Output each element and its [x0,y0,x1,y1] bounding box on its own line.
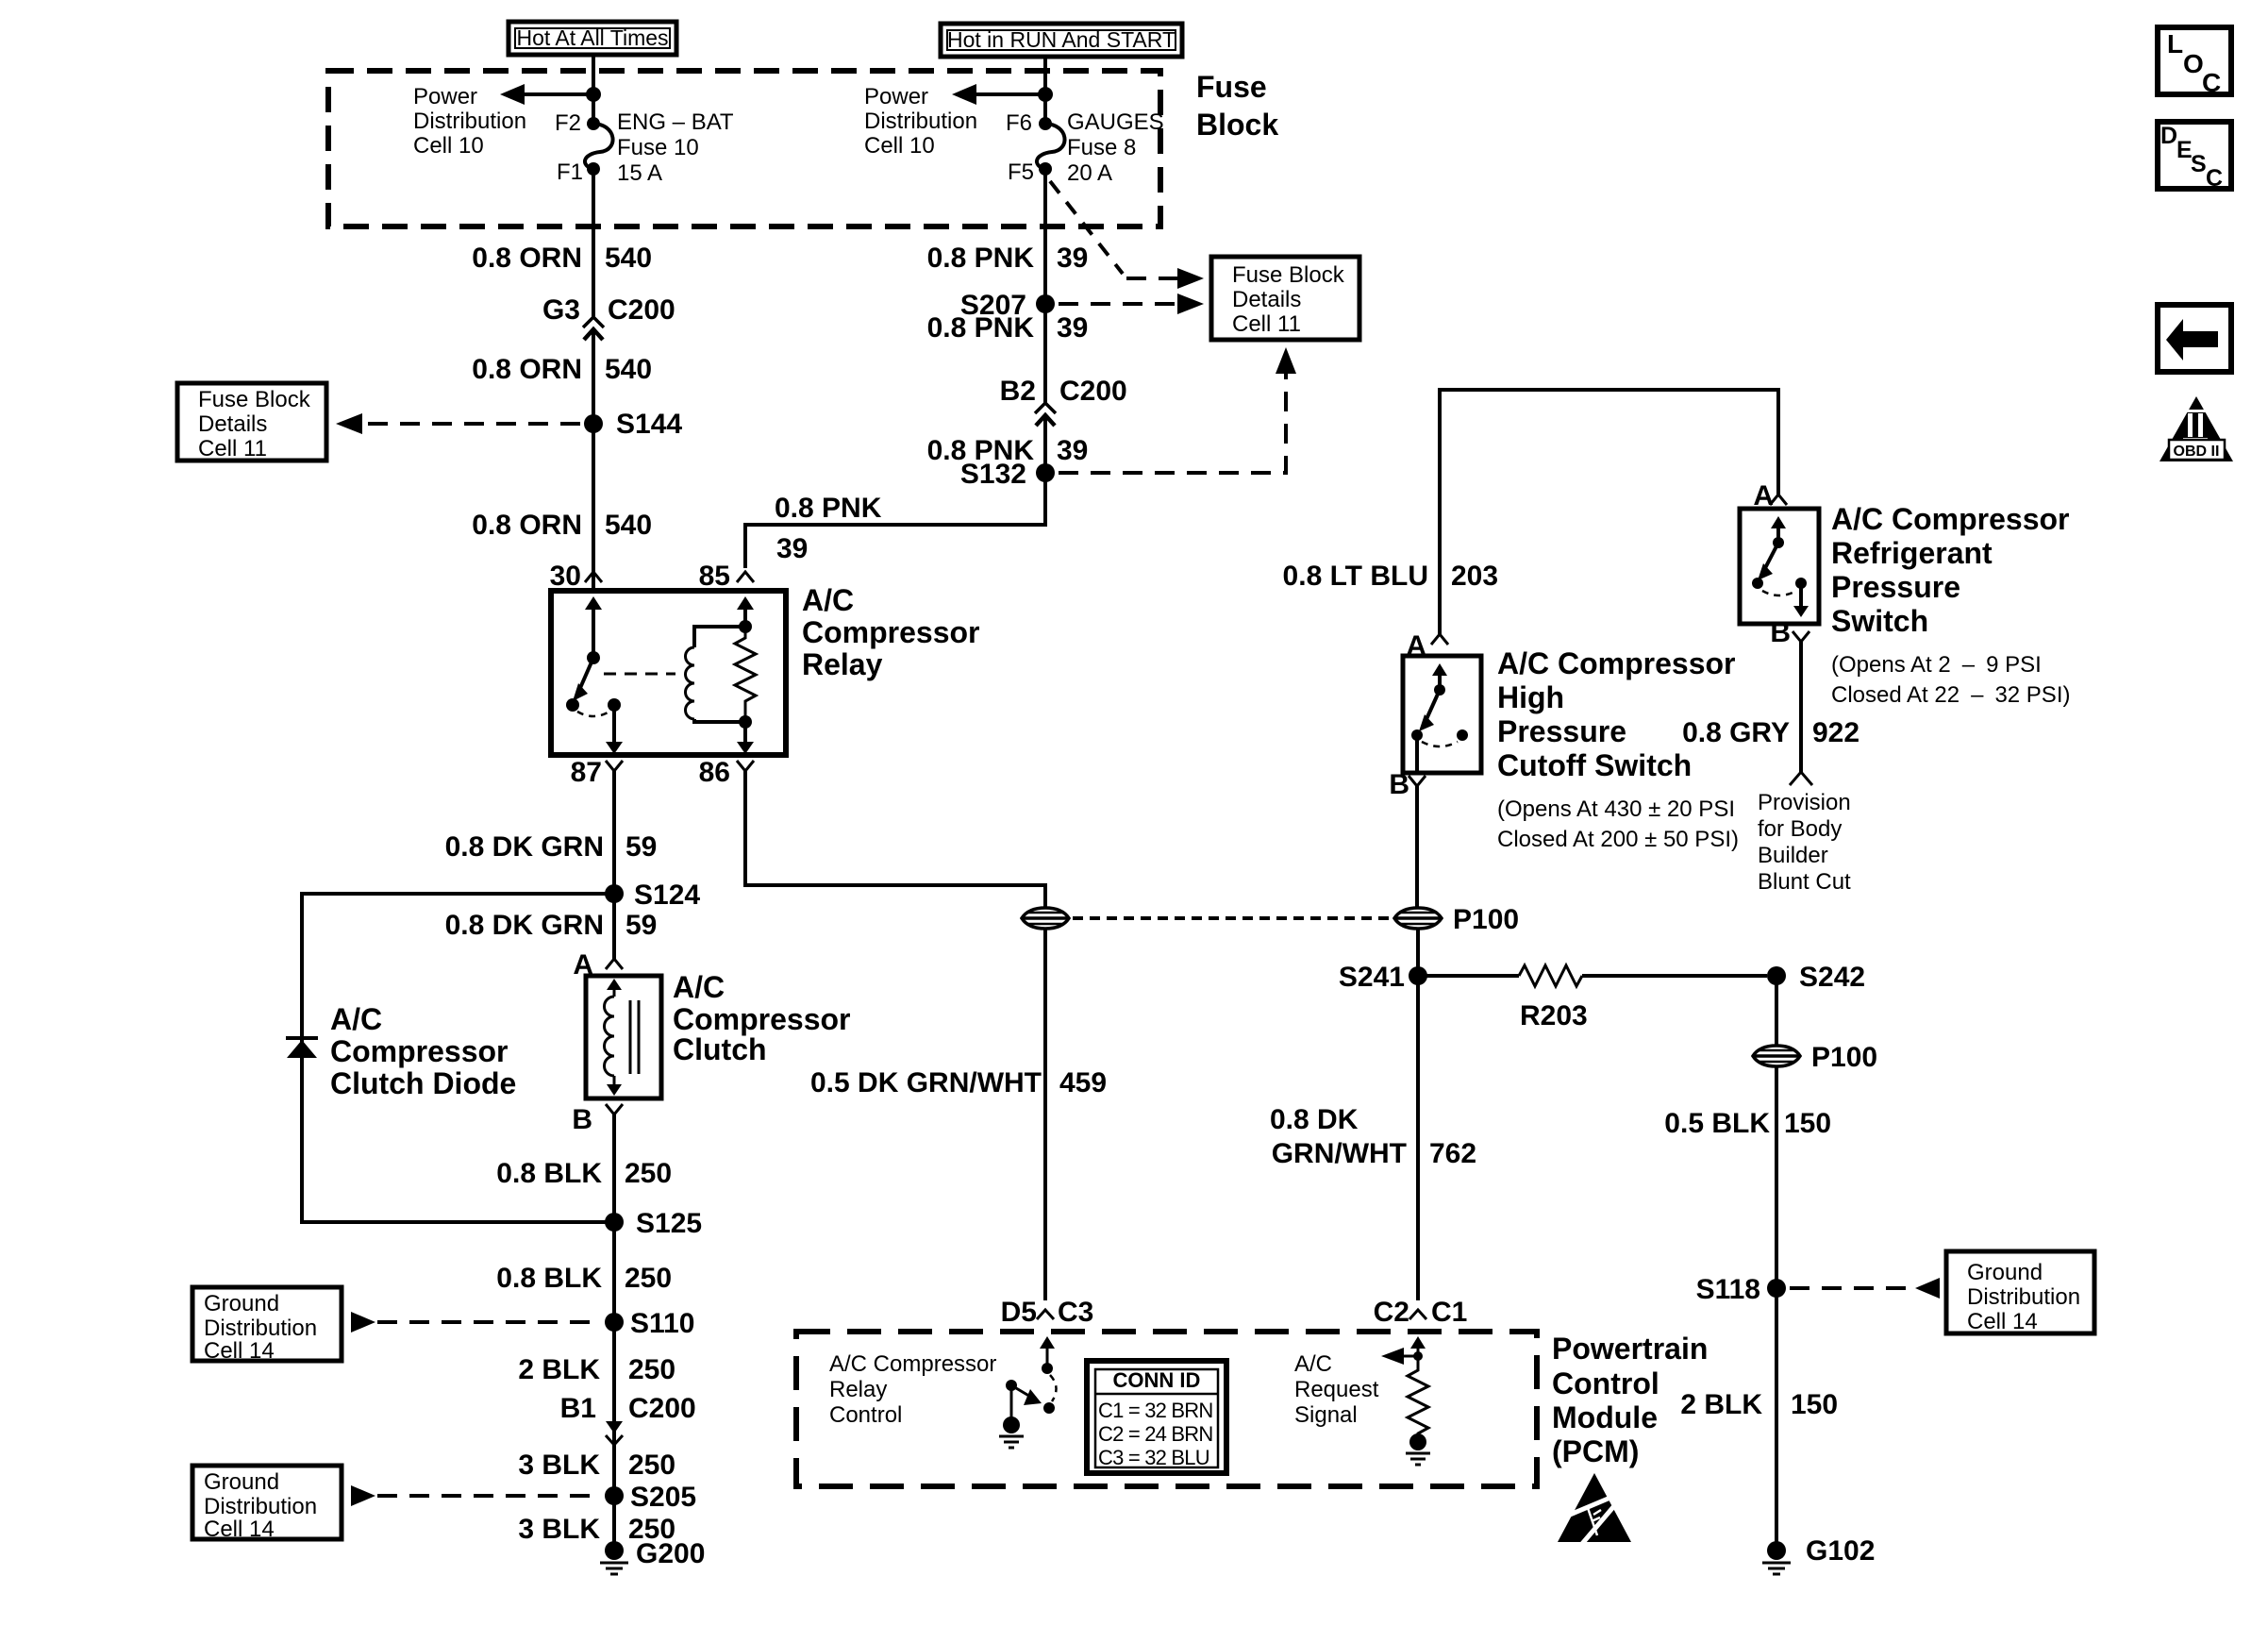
svg-text:C3: C3 [1058,1297,1093,1328]
svg-text:C1: C1 [1431,1297,1467,1328]
label G200 [636,1538,705,1569]
node S144 [584,414,603,433]
svg-text:Cell 14: Cell 14 [204,1338,275,1364]
svg-text:Fuse: Fuse [1196,70,1267,104]
svg-text:A/C: A/C [802,583,854,617]
svg-text:Fuse Block: Fuse Block [198,387,311,412]
label GAUGES Fuse 8 20 A [1067,109,1164,186]
pin labels C2 C1 [1374,1297,1468,1328]
label S207 [960,290,1026,321]
reference box Ground Distribution Cell 14 (lower left) [192,1466,342,1542]
label F6 [1006,110,1032,136]
svg-text:Relay: Relay [829,1377,887,1402]
blunt cut connector end [1790,772,1812,785]
label 0.8 ORN 540 (2) [472,354,652,385]
relay terminal 86 connector [699,757,1045,907]
label 0.8 PNK 39 (wire to relay) [775,493,882,564]
node S124 [605,884,624,903]
clutch plates [630,1000,639,1074]
svg-text:Control: Control [829,1402,902,1428]
svg-text:0.8 DK: 0.8 DK [1270,1104,1359,1135]
svg-text:15 A: 15 A [617,160,662,186]
tag box Hot At All Times [509,22,676,55]
label Powertrain Control Module (PCM) [1552,1332,1708,1468]
label 0.5 BLK 150 [1664,1108,1831,1139]
PCM relay control driver switch [999,1336,1057,1448]
svg-text:3 BLK: 3 BLK [518,1450,600,1481]
node S118 [1767,1279,1786,1298]
label F5 [1008,159,1034,185]
svg-text:Details: Details [198,411,267,437]
wire from Hot in RUN And START into fuse block [1043,57,1047,124]
label A/C Compressor High Pressure Cutoff Switch [1497,646,1739,852]
connector B2 C200 on pink wire [1035,403,1056,525]
wire P100 down to PCM D5/C3 [1043,929,1047,1300]
connector G3 C200 on orange wire [583,317,604,593]
pin labels D5 C3 [1001,1297,1094,1328]
label S242 [1799,962,1865,993]
relay terminal 87 connector [571,757,623,959]
dashed reference from S207 to Fuse Block Details [1059,293,1204,314]
svg-text:S: S [2191,151,2207,177]
svg-text:C2 = 24 BRN: C2 = 24 BRN [1098,1422,1212,1446]
Powertrain Control Module dashed box [796,1332,1537,1486]
svg-text:0.8 BLK: 0.8 BLK [496,1158,602,1189]
diode loop wire [302,894,614,1222]
svg-text:Closed At 22 – 32 PSI): Closed At 22 – 32 PSI) [1831,682,2070,708]
icon OBD II triangle [2160,396,2233,461]
label Power Distribution Cell 10 (right) [864,84,977,159]
node ignition feed right [1038,87,1053,102]
svg-text:Compressor: Compressor [802,615,980,649]
arrow to Power Distribution (left) [500,84,593,105]
wire F1 down to G3 C200 [592,169,595,317]
relay terminal 85 connector [699,561,754,592]
svg-text:3 BLK: 3 BLK [518,1514,600,1545]
label 0.8 ORN 540 (1) [472,243,652,274]
svg-text:F1: F1 [557,159,583,185]
label G3 C200 [542,294,675,326]
node S125 [605,1213,624,1232]
label P100 (left) [1453,904,1519,935]
label 0.8 ORN 540 (3) [472,510,652,541]
label P100 (right) [1811,1042,1877,1073]
svg-text:0.8 ORN: 0.8 ORN [472,510,582,541]
svg-text:Fuse Block: Fuse Block [1232,262,1345,288]
refrigerant switch terminal A connector [1753,480,1787,511]
svg-text:(PCM): (PCM) [1552,1434,1639,1468]
fuse F6/F5 GAUGES [1037,117,1065,176]
svg-text:C3 = 32 BLU: C3 = 32 BLU [1098,1446,1209,1469]
in-line connector P100 on relay control wire [1022,908,1069,929]
svg-text:Hot in RUN And START: Hot in RUN And START [947,27,1176,52]
label S124 [634,880,700,911]
svg-text:Cell 11: Cell 11 [1232,311,1301,337]
cutoff switch contacts [1411,663,1468,771]
label 0.8 LT BLU 203 [1283,561,1499,592]
dashed reference from S118 to Ground Distribution [1790,1278,1940,1299]
clutch coil [605,979,623,1096]
svg-text:F2: F2 [555,110,581,136]
A/C Compressor Relay box [551,591,786,755]
svg-text:0.8 BLK: 0.8 BLK [496,1263,602,1294]
svg-text:Cell 10: Cell 10 [413,133,484,159]
label S205 [630,1482,696,1513]
svg-text:B: B [572,1104,592,1135]
svg-text:A/C: A/C [673,970,725,1004]
svg-text:Relay: Relay [802,647,883,681]
label A/C Compressor Relay [802,583,980,681]
label 0.8 PNK 39 (3) [927,435,1089,466]
svg-text:S241: S241 [1339,962,1405,993]
svg-text:F5: F5 [1008,159,1034,185]
label 0.8 PNK 39 (2) [927,312,1089,344]
svg-text:Signal: Signal [1294,1402,1358,1428]
svg-text:G200: G200 [636,1538,705,1569]
svg-text:30: 30 [550,561,581,592]
dashed reference arrow to S110 [351,1312,601,1333]
svg-text:39: 39 [1057,312,1088,344]
svg-text:Ground: Ground [204,1291,279,1316]
A/C compressor clutch diode [286,1038,318,1058]
A/C Compressor Clutch box [586,976,661,1098]
svg-text:C: C [2202,68,2221,97]
svg-text:Blunt Cut: Blunt Cut [1758,869,1851,895]
svg-text:C200: C200 [628,1393,696,1424]
svg-text:540: 540 [605,510,652,541]
svg-text:GAUGES: GAUGES [1067,109,1164,135]
svg-text:85: 85 [699,561,730,592]
svg-text:0.8 GRY: 0.8 GRY [1682,717,1790,748]
svg-text:Cutoff Switch: Cutoff Switch [1497,748,1692,782]
svg-text:Power: Power [413,84,477,109]
svg-text:0.8 LT BLU: 0.8 LT BLU [1283,561,1428,592]
label S118 [1696,1274,1760,1305]
label 0.8 PNK 39 (1) [927,243,1089,274]
svg-text:250: 250 [628,1354,675,1385]
svg-text:86: 86 [699,757,730,788]
svg-text:O: O [2183,49,2204,78]
icon LOC [2158,27,2231,97]
svg-text:Compressor: Compressor [673,1002,851,1036]
svg-text:922: 922 [1812,717,1859,748]
label S110 [630,1308,694,1339]
cutoff switch terminal B connector [1389,769,1426,907]
svg-text:87: 87 [571,757,602,788]
label 0.8 DK GRN 59 (2) [445,910,658,941]
svg-text:D: D [2160,123,2177,149]
relay terminal 30 connector [550,561,602,592]
wire S132 to relay terminal 85 [745,473,1045,568]
svg-text:Compressor: Compressor [330,1034,509,1068]
svg-text:Cell 14: Cell 14 [204,1517,275,1542]
svg-text:250: 250 [628,1450,675,1481]
svg-text:S124: S124 [634,880,700,911]
A/C Compressor High Pressure Cutoff Switch box [1403,656,1481,773]
wire P100 to S241 [1416,929,1420,1300]
label A/C Compressor Clutch [673,970,851,1066]
svg-text:C1 = 32 BRN: C1 = 32 BRN [1098,1399,1212,1422]
svg-text:Clutch: Clutch [673,1032,767,1066]
svg-text:S125: S125 [636,1208,702,1239]
svg-text:Module: Module [1552,1400,1658,1434]
CONN ID table [1087,1361,1226,1473]
label F2 [555,110,581,136]
svg-text:Distribution: Distribution [413,109,526,134]
svg-text:C: C [2206,165,2223,192]
reference box Ground Distribution Cell 14 (upper left) [192,1287,342,1364]
svg-text:Fuse 10: Fuse 10 [617,135,699,160]
relay internal dashed link [604,673,675,676]
label R203 [1520,1000,1588,1031]
label 0.8 DK GRN 59 (1) [445,831,658,863]
label 3 BLK 250 (2) [518,1514,675,1545]
svg-text:Distribution: Distribution [864,109,977,134]
svg-text:R203: R203 [1520,1000,1588,1031]
svg-text:Closed At 200 ± 50 PSI): Closed At 200 ± 50 PSI) [1497,827,1739,852]
svg-text:Pressure: Pressure [1831,570,1960,604]
label 0.8 BLK 250 (2) [496,1263,672,1294]
svg-text:C2: C2 [1374,1297,1409,1328]
reference box Fuse Block Details Cell 11 (left) [177,383,326,461]
label S132 [960,459,1026,490]
icon back arrow [2158,305,2231,372]
ESD warning symbol [1552,1473,1631,1545]
label B2 C200 [1000,376,1127,407]
label 0.8 BLK 250 (1) [496,1158,672,1189]
dashed reference from S144 to Fuse Block Details [336,413,580,434]
connector B1 C200 [560,1393,696,1445]
svg-text:P100: P100 [1453,904,1519,935]
svg-text:S144: S144 [616,409,682,440]
svg-text:G102: G102 [1806,1535,1875,1567]
svg-text:S242: S242 [1799,962,1865,993]
svg-text:B: B [1389,769,1409,800]
PCM A/C request input [1381,1336,1430,1465]
label 0.8 GRY 922 [1682,717,1859,748]
label Power Distribution Cell 10 (left) [413,84,526,159]
clutch terminal B connector [572,1104,623,1551]
svg-text:Distribution: Distribution [204,1494,317,1519]
svg-text:0.8 DK GRN: 0.8 DK GRN [445,831,604,863]
dashed reference from S132 up to Fuse Block Details [1059,347,1296,473]
svg-text:Power: Power [864,84,928,109]
dashed diagonal reference from fuse F5 [1050,181,1204,289]
svg-text:Pressure: Pressure [1497,714,1626,748]
svg-text:Request: Request [1294,1377,1379,1402]
svg-text:A/C Compressor: A/C Compressor [1497,646,1736,680]
fuse F2/F1 ENG-BAT [585,117,613,176]
wire S242 down through P100 to G102 [1775,976,1778,1551]
svg-text:Details: Details [1232,287,1301,312]
svg-text:2 BLK: 2 BLK [518,1354,600,1385]
svg-text:0.8 PNK: 0.8 PNK [775,493,882,524]
label 2 BLK 150 [1680,1389,1838,1420]
label 0.8 DK GRN/WHT 762 (upper) [1270,1104,1476,1169]
node S205 [605,1486,624,1505]
label G102 [1806,1535,1875,1567]
svg-text:B2: B2 [1000,376,1036,407]
tag box Hot in RUN And START [941,24,1182,57]
svg-text:0.8 ORN: 0.8 ORN [472,354,582,385]
svg-text:CONN ID: CONN ID [1113,1368,1201,1392]
icon DESC [2158,122,2231,192]
svg-text:Refrigerant: Refrigerant [1831,536,1993,570]
label 3 BLK 250 (1) [518,1450,675,1481]
resistor R203 [1418,965,1767,986]
in-line connector P100 on BLK 150 wire [1753,1046,1800,1066]
svg-text:D5: D5 [1001,1297,1037,1328]
svg-text:0.8 ORN: 0.8 ORN [472,243,582,274]
svg-text:P100: P100 [1811,1042,1877,1073]
svg-text:39: 39 [1057,243,1088,274]
wire high pressure switch loop 0.8 LT BLU 203 [1440,390,1778,634]
wire F5 down to S207 [1043,169,1047,403]
svg-text:Cell 14: Cell 14 [1967,1309,2038,1334]
svg-text:150: 150 [1784,1108,1831,1139]
svg-text:(Opens At 2 – 9 PSI: (Opens At 2 – 9 PSI [1831,652,2042,678]
label 2 BLK 250 [518,1354,675,1385]
relay coil resistor [735,627,756,722]
svg-text:20 A: 20 A [1067,160,1112,186]
label S241 [1339,962,1405,993]
wire from Hot At All Times into fuse block [592,55,595,124]
svg-text:Distribution: Distribution [1967,1284,2080,1310]
node S207 [1036,294,1055,313]
svg-text:A/C: A/C [330,1002,382,1036]
label 0.5 DK GRN/WHT 459 [810,1067,1107,1098]
svg-text:250: 250 [625,1263,672,1294]
svg-text:Ground: Ground [1967,1260,2043,1285]
svg-text:Block: Block [1196,108,1278,142]
svg-text:0.8 DK GRN: 0.8 DK GRN [445,910,604,941]
node S110 [605,1313,624,1332]
fuse block dashed outline [328,71,1160,226]
refrigerant switch contacts [1752,516,1809,617]
svg-text:OBD II: OBD II [2174,444,2220,460]
dashed link between P100 connectors [1073,916,1394,920]
svg-text:GRN/WHT: GRN/WHT [1272,1138,1407,1169]
node S241 [1409,966,1427,985]
svg-text:0.5 DK GRN/WHT: 0.5 DK GRN/WHT [810,1067,1042,1098]
label A/C Compressor Clutch Diode [330,1002,516,1100]
svg-text:59: 59 [625,910,657,941]
reference box Ground Distribution Cell 14 (right) [1946,1251,2094,1334]
label A/C Compressor Refrigerant Pressure Switch [1831,502,2070,708]
in-line connector P100 on DK GRN/WHT wire [1394,908,1442,929]
svg-text:250: 250 [625,1158,672,1189]
node S132 [1036,463,1055,482]
node S242 [1767,966,1786,985]
svg-text:540: 540 [605,354,652,385]
svg-text:Distribution: Distribution [204,1316,317,1341]
svg-text:Provision: Provision [1758,790,1851,815]
svg-text:F6: F6 [1006,110,1032,136]
label S125 [636,1208,702,1239]
svg-text:Powertrain: Powertrain [1552,1332,1708,1366]
svg-text:Cell 11: Cell 11 [198,436,267,461]
svg-text:S132: S132 [960,459,1026,490]
svg-text:Fuse 8: Fuse 8 [1067,135,1136,160]
label S144 [616,409,682,440]
relay coil [686,596,755,729]
refrigerant switch terminal B connector [1770,617,1809,772]
svg-text:59: 59 [625,831,657,863]
svg-text:A/C Compressor: A/C Compressor [1831,502,2070,536]
svg-text:Clutch Diode: Clutch Diode [330,1066,516,1100]
svg-text:762: 762 [1429,1138,1476,1169]
svg-text:S110: S110 [630,1308,694,1339]
ground G102 [1762,1541,1791,1574]
label F1 [557,159,583,185]
ground G200 [600,1541,628,1574]
svg-text:150: 150 [1791,1389,1838,1420]
svg-text:203: 203 [1451,561,1498,592]
label A/C Request Signal [1294,1351,1379,1428]
svg-text:A/C: A/C [1294,1351,1332,1377]
svg-text:Hot At All Times: Hot At All Times [516,25,668,50]
relay switch (30-87) [566,596,623,754]
clutch terminal A connector [573,949,623,981]
label Provision for Body Builder Blunt Cut [1758,790,1851,895]
svg-text:39: 39 [776,533,808,564]
svg-text:Builder: Builder [1758,843,1828,868]
svg-text:for Body: for Body [1758,816,1842,842]
cutoff switch terminal A connector [1406,630,1448,662]
svg-text:Ground: Ground [204,1469,279,1495]
svg-text:540: 540 [605,243,652,274]
svg-text:Cell 10: Cell 10 [864,133,935,159]
svg-text:0.5 BLK: 0.5 BLK [1664,1108,1770,1139]
svg-text:2 BLK: 2 BLK [1680,1389,1762,1420]
svg-text:High: High [1497,680,1564,714]
svg-text:Switch: Switch [1831,604,1928,638]
svg-text:39: 39 [1057,435,1088,466]
svg-text:L: L [2167,29,2183,59]
svg-text:0.8 PNK: 0.8 PNK [927,243,1035,274]
svg-text:0.8 PNK: 0.8 PNK [927,312,1035,344]
svg-text:B1: B1 [560,1393,596,1424]
svg-text:C200: C200 [608,294,675,326]
label ENG-BAT Fuse 10 15 A [617,109,734,186]
node battery feed left [586,87,601,102]
svg-text:Control: Control [1552,1366,1659,1400]
label A/C Compressor Relay Control [829,1351,996,1428]
label Fuse Block [1196,70,1278,142]
dashed reference arrow to S205 [351,1485,601,1506]
svg-text:ENG – BAT: ENG – BAT [617,109,734,135]
svg-text:459: 459 [1059,1067,1107,1098]
svg-text:S205: S205 [630,1482,696,1513]
svg-text:C200: C200 [1059,376,1127,407]
relay coil output to 86 [737,722,754,754]
svg-text:S118: S118 [1696,1274,1760,1305]
svg-text:(Opens At 430 ± 20 PSI: (Opens At 430 ± 20 PSI [1497,796,1735,822]
arrow to Power Distribution (right) [952,84,1045,105]
A/C Compressor Refrigerant Pressure Switch box [1740,509,1819,624]
reference box Fuse Block Details Cell 11 (right) [1211,257,1359,340]
svg-text:A/C Compressor: A/C Compressor [829,1351,996,1377]
svg-text:G3: G3 [542,294,580,326]
svg-text:B: B [1770,617,1791,648]
